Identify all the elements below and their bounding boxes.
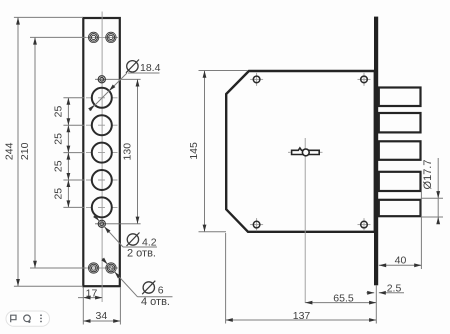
- screw hole Ø6 top-left: [88, 32, 98, 42]
- svg-text:17: 17: [86, 287, 98, 299]
- deadbolt 3: [379, 141, 421, 160]
- cylinder hole Ø18.4 #5: [92, 197, 112, 217]
- dimension 137: [226, 233, 377, 324]
- cylinder hole Ø18.4 #3: [92, 143, 112, 163]
- screw hole Ø6 top-right: [106, 32, 116, 42]
- svg-text:Ø17.7: Ø17.7: [422, 160, 434, 190]
- svg-text:130: 130: [122, 143, 134, 161]
- screw hole Ø6 bottom-left: [88, 263, 98, 273]
- svg-text:65.5: 65.5: [333, 292, 354, 304]
- lock body outline: [226, 71, 375, 232]
- dimension 2.5: [366, 285, 404, 323]
- svg-text:244: 244: [4, 142, 16, 160]
- svg-text:137: 137: [293, 310, 311, 322]
- dimension 40: [379, 192, 422, 269]
- deadbolt 2: [379, 113, 421, 132]
- body screw cross bottom-left: [250, 218, 263, 231]
- dimension 34: [83, 287, 120, 325]
- screw hole Ø6 bottom-right: [106, 263, 116, 273]
- centerlines of big holes: [86, 98, 118, 208]
- toolbar icon flag: [11, 315, 16, 322]
- cylinder hole Ø18.4 #4: [92, 170, 112, 190]
- svg-text:25: 25: [53, 188, 65, 200]
- dimension 130: [137, 79, 139, 224]
- cylinder hole Ø18.4 #1: [92, 88, 112, 108]
- svg-text:6: 6: [158, 284, 164, 296]
- centerline through top screw holes: [86, 36, 118, 38]
- svg-text:40: 40: [395, 254, 407, 266]
- dimension 65.5: [305, 302, 376, 304]
- svg-text:25: 25: [53, 160, 65, 172]
- svg-text:18.4: 18.4: [140, 62, 161, 74]
- dimension Ø17.7: [422, 158, 444, 224]
- centerline + 130 top extension through small hole: [95, 78, 141, 80]
- faceplate side view (edge bar): [374, 17, 378, 286]
- dimension 145: [199, 71, 249, 232]
- svg-text:25: 25: [53, 106, 65, 118]
- label Ø4.2 2 отв. with leader: [94, 215, 157, 247]
- dimension chain 25 x4: [63, 98, 84, 208]
- toolbar icon menu dots: [40, 314, 42, 322]
- dimension 244: [14, 17, 83, 286]
- centerline through bottom screw holes: [86, 267, 118, 269]
- keyhole: [292, 148, 320, 156]
- toolbar icon lens: [24, 315, 31, 323]
- body screw cross top-right: [358, 73, 371, 86]
- small hole Ø4.2 top: [98, 76, 105, 83]
- keyhole horizontal centerline: [288, 151, 323, 153]
- svg-text:4 отв.: 4 отв.: [141, 296, 170, 308]
- dimension 17: [78, 297, 102, 299]
- faceplate front view: [83, 18, 120, 286]
- label Ø18.4 with leader: [90, 60, 160, 111]
- browser toolbar pill: [6, 311, 50, 326]
- svg-text:145: 145: [188, 142, 200, 160]
- dimension 210: [30, 37, 86, 268]
- svg-text:34: 34: [96, 310, 108, 322]
- deadbolt 4: [379, 172, 421, 191]
- vertical centerline of faceplate: [101, 12, 103, 303]
- svg-text:25: 25: [53, 133, 65, 145]
- body screw cross bottom-right: [358, 218, 371, 231]
- label Ø6 4 отв. with leader: [102, 258, 173, 297]
- svg-text:210: 210: [19, 142, 31, 160]
- keyhole vertical centerline: [304, 138, 306, 303]
- centerline + 130 bottom extension through small hole: [95, 223, 141, 225]
- body screw cross top-left: [250, 73, 263, 86]
- small hole Ø4.2 bottom: [98, 220, 105, 227]
- deadbolt 1: [379, 88, 421, 107]
- cylinder hole Ø18.4 #2: [92, 115, 112, 135]
- svg-text:2 отв.: 2 отв.: [127, 248, 156, 260]
- svg-text:2.5: 2.5: [387, 282, 402, 294]
- deadbolt 5: [379, 200, 421, 216]
